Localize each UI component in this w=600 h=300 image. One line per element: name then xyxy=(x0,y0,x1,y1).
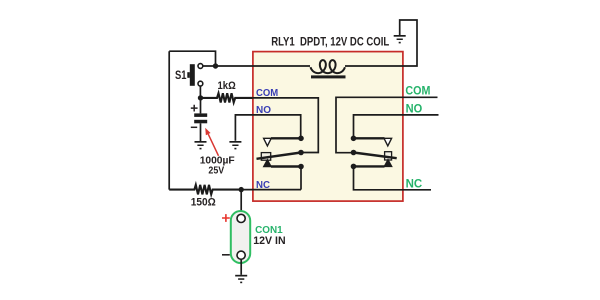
svg-text:25V: 25V xyxy=(208,166,224,177)
node NO left xyxy=(298,136,304,142)
ground (top right) xyxy=(394,35,406,43)
wire NO left to ground xyxy=(235,115,300,141)
wire S1 bottom xyxy=(199,86,201,98)
connector CON1 xyxy=(222,190,250,263)
wire NC left down xyxy=(300,167,302,190)
wire COM left into relay xyxy=(253,98,318,153)
relay coil xyxy=(311,60,346,78)
svg-text:NO: NO xyxy=(406,101,423,115)
svg-text:COM: COM xyxy=(256,88,278,99)
relay armature right xyxy=(354,152,397,160)
node COM left xyxy=(298,150,304,156)
node NO right xyxy=(351,136,357,142)
wire CON1 to ground xyxy=(240,259,242,275)
svg-text:1kΩ: 1kΩ xyxy=(218,80,236,92)
node NC right xyxy=(351,164,357,170)
node S1 bottom junction xyxy=(198,95,203,100)
relay contact NO right xyxy=(354,138,392,146)
relay armature left xyxy=(257,153,302,161)
svg-text:1000µF: 1000µF xyxy=(200,154,236,166)
capacitor 1000uF xyxy=(191,98,207,127)
svg-text:RLY1 DPDT, 12V DC COIL: RLY1 DPDT, 12V DC COIL xyxy=(271,37,389,49)
svg-text:NO: NO xyxy=(256,105,271,116)
ground (capacitor) xyxy=(195,141,207,149)
svg-text:COM: COM xyxy=(405,84,430,98)
ground (CON1) xyxy=(235,275,247,283)
relay contact NO left xyxy=(264,138,301,146)
resistor 1k ohm xyxy=(201,93,253,102)
ground (NO left) xyxy=(229,141,241,149)
wire capacitor to ground xyxy=(200,123,202,141)
wire NO right xyxy=(354,115,439,138)
wire COM right xyxy=(336,97,438,152)
wire coil to ground xyxy=(345,20,417,66)
node COM right xyxy=(351,150,357,156)
node S1 top junction xyxy=(213,63,218,68)
switch S1 xyxy=(175,64,203,86)
node NC left xyxy=(298,164,304,170)
wire NC right xyxy=(354,166,432,189)
svg-text:S1: S1 xyxy=(175,68,187,82)
resistor 150 ohm xyxy=(169,185,241,195)
svg-text:12V IN: 12V IN xyxy=(253,235,285,247)
relay body RLY1 xyxy=(253,52,403,202)
relay contact NC right xyxy=(354,160,392,167)
svg-text:150Ω: 150Ω xyxy=(191,196,216,208)
callout arrow to capacitor xyxy=(205,128,218,156)
relay contact NC left xyxy=(264,160,301,167)
svg-text:NC: NC xyxy=(406,176,423,190)
wire top xyxy=(169,51,215,66)
node CON1 junction xyxy=(239,187,244,192)
wire left rail xyxy=(168,51,170,189)
wire S1 to coil xyxy=(203,65,310,67)
wire bottom to NC xyxy=(241,189,301,191)
